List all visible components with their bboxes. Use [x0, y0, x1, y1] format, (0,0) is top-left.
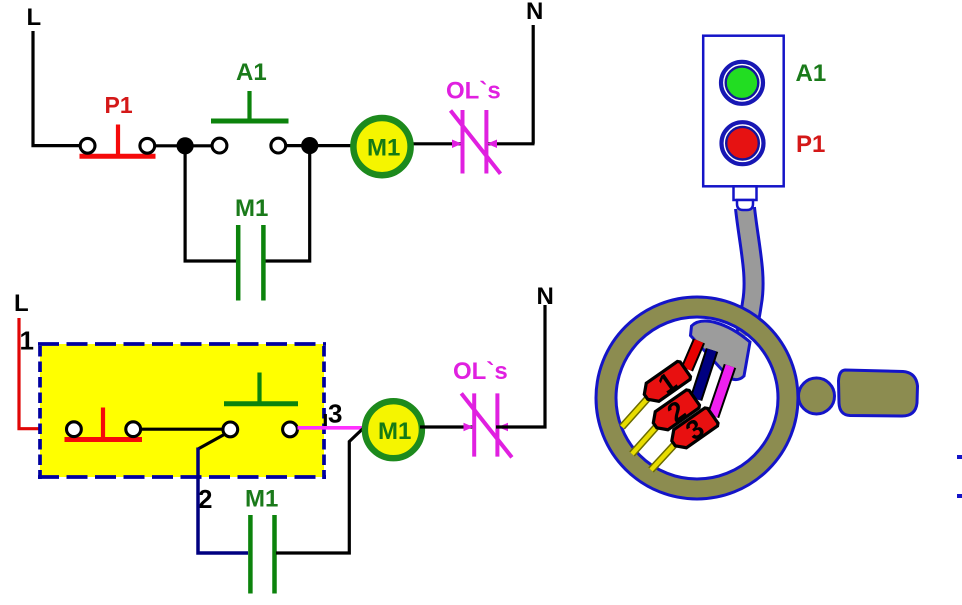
pushbutton P1 (NC) symbol, bottom circuit: [65, 408, 143, 440]
overload OL's symbol, bottom circuit: [461, 393, 512, 457]
wire: junction A to A1 left terminal: [185, 144, 213, 147]
magnifier ring: [606, 307, 788, 489]
wire: coil M1 to OL's: [411, 142, 464, 145]
terminal circle, bottom A1 left: [223, 422, 238, 437]
station button P1 (red): [722, 122, 764, 164]
junction A (dot): [177, 137, 194, 154]
pushbutton A1 (NO) symbol, bottom circuit: [224, 373, 298, 404]
terminal circle, bottom P1 right: [126, 422, 141, 437]
pushbutton A1 (NO) symbol: [211, 91, 289, 121]
terminal circle, A1 right: [271, 138, 286, 153]
junction B (dot): [301, 137, 318, 154]
crimp connector 3: [665, 404, 722, 456]
cable jacket inside magnifier: [691, 321, 751, 379]
stripped lead 1 (yellow): [622, 398, 648, 427]
station neck lower: [737, 200, 753, 210]
magnifier handle joint: [799, 378, 835, 414]
station button A1 (green): [721, 62, 763, 104]
pushbutton P1 (NC) symbol: [80, 125, 156, 157]
svg-text:A1: A1: [796, 60, 827, 87]
wire: between P1 and junction A: [154, 144, 185, 147]
stripped lead 3 (yellow): [651, 444, 675, 470]
pushbutton station enclosure (yellow box): [40, 344, 324, 477]
svg-text:N: N: [537, 283, 554, 310]
wire: L rail vertical + horizontal to P1: [33, 31, 81, 146]
crimp connector 2: [647, 386, 704, 438]
svg-text:M1: M1: [378, 418, 411, 445]
wire 2 (navy) in magnifier: [696, 350, 712, 399]
wire: diagonal branch from A1 left terminal: [198, 434, 226, 450]
wire: P1 to A1 inside box: [140, 428, 224, 431]
svg-text:L: L: [14, 290, 29, 317]
station neck upper: [734, 186, 757, 200]
stripped lead 2 (yellow): [632, 426, 657, 454]
svg-text:N: N: [526, 0, 543, 25]
wire: L rail red, bottom circuit: [19, 318, 67, 429]
magnifier handle grip: [839, 370, 918, 416]
cable from station to magnifier: [745, 208, 754, 336]
pushbutton station enclosure (drawing): [703, 36, 784, 187]
wire 1 (red) in magnifier: [687, 341, 699, 369]
svg-text:A1: A1: [236, 59, 267, 86]
wire: latch branch right (junction B down and left): [264, 146, 310, 261]
stray mark 1 (right edge): [957, 455, 962, 459]
wire 3 (pink) from A1 to coil: [298, 426, 369, 430]
svg-text:M1: M1: [235, 195, 268, 222]
svg-text:OL`s: OL`s: [446, 78, 501, 105]
wire: OL's to N rail, bottom circuit: [496, 305, 545, 427]
wire: latch contact to coil, bottom circuit: [276, 429, 363, 554]
wire 3 (magenta) in magnifier: [713, 366, 730, 416]
auxiliary contact M1 (NO) plates, bottom circuit: [250, 515, 274, 594]
terminal circle, bottom A1 right: [283, 422, 298, 437]
svg-text:1: 1: [20, 326, 34, 356]
wire: OL's to N rail: [485, 142, 535, 145]
terminal circle, bottom P1 left: [67, 422, 82, 437]
wire number 3 tick: [324, 414, 327, 429]
svg-text:2: 2: [198, 484, 212, 514]
svg-text:M1: M1: [367, 135, 400, 162]
overload OL's symbol, top circuit: [451, 110, 501, 174]
wire 2 (navy) down to latch contact: [198, 448, 248, 554]
wire: latch branch left (junction A down and right): [185, 146, 237, 261]
svg-text:P1: P1: [105, 92, 133, 118]
stray mark 2 (right edge): [957, 494, 962, 498]
svg-text:P1: P1: [796, 131, 825, 158]
wire: coil to OL's, bottom circuit: [420, 425, 475, 428]
svg-text:M1: M1: [245, 486, 278, 513]
svg-text:OL`s: OL`s: [453, 358, 508, 385]
wire: A1 right terminal to junction B: [285, 144, 310, 147]
coil M1, top circuit: [353, 118, 410, 175]
wire: junction B to coil M1: [310, 144, 354, 147]
crimp connector 1: [638, 358, 695, 410]
coil M1, bottom circuit: [365, 401, 422, 458]
terminal circle, A1 left: [212, 138, 227, 153]
terminal circle, P1 right: [140, 138, 155, 153]
auxiliary contact M1 (NO) plates, top circuit: [238, 225, 263, 301]
svg-text:L: L: [27, 4, 42, 31]
terminal circle, P1 left: [80, 138, 95, 153]
wire: N rail vertical, top circuit: [532, 25, 535, 144]
svg-text:3: 3: [328, 399, 342, 429]
